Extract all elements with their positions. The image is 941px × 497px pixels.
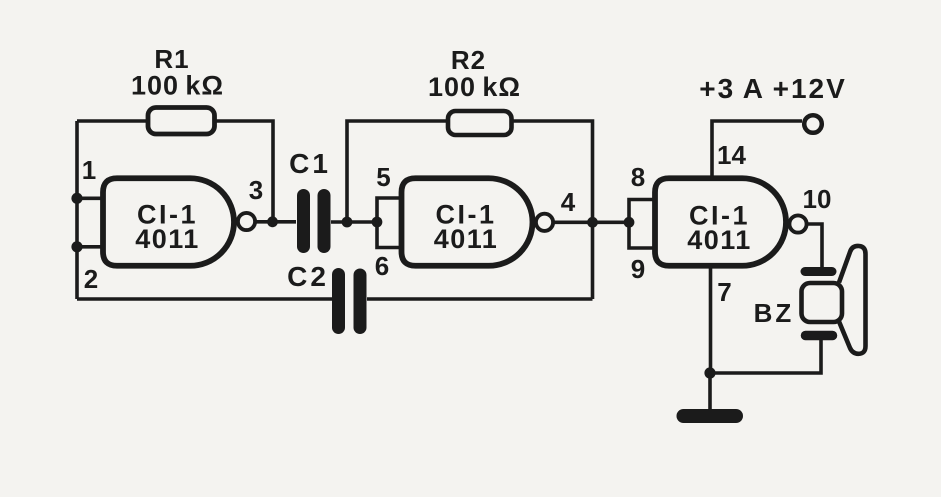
- capacitor C2 right plate: [354, 275, 367, 328]
- svg-text:1: 1: [82, 155, 96, 185]
- svg-text:4011: 4011: [135, 224, 200, 254]
- nand gate U1a output bubble: [238, 213, 255, 230]
- svg-text:8: 8: [631, 162, 645, 192]
- wire gate1 input stub pin2: [77, 245, 104, 249]
- svg-text:BZ: BZ: [754, 298, 795, 328]
- wire bottom feedback through C2 left part: [77, 297, 332, 301]
- buzzer BZ body: [802, 283, 843, 322]
- node gate2 input junction: [372, 217, 383, 228]
- capacitor C1 left plate: [297, 196, 310, 247]
- wire pin14 supply vertical: [712, 121, 802, 178]
- svg-text:4: 4: [561, 187, 576, 217]
- nand gate U1c CI-1 4011 body: [655, 178, 786, 266]
- resistor R2: [448, 111, 512, 135]
- wire top-left to R1: [77, 119, 150, 123]
- svg-text:14: 14: [717, 140, 746, 170]
- wire buzzer return: [710, 340, 821, 373]
- wire C1 to gate2 input: [331, 220, 377, 224]
- svg-text:4011: 4011: [687, 225, 752, 255]
- svg-text:R2: R2: [451, 45, 486, 75]
- buzzer BZ bottom terminal bar: [806, 331, 833, 341]
- svg-text:C2: C2: [287, 261, 329, 292]
- nand gate U1c output bubble: [789, 215, 806, 232]
- buzzer BZ cone: [839, 246, 866, 354]
- svg-text:7: 7: [717, 277, 731, 307]
- wire gate1 input stub pin1: [77, 197, 104, 201]
- node gate1 input pin1 junction: [71, 193, 82, 204]
- svg-text:100 kΩ: 100 kΩ: [131, 71, 224, 101]
- svg-text:10: 10: [803, 184, 832, 214]
- node ground junction: [704, 367, 715, 378]
- wire R2 right to output vertical: [512, 121, 593, 299]
- resistor R1: [148, 108, 215, 135]
- ground symbol bar: [684, 409, 737, 423]
- wire bottom feedback C2 to pin4: [367, 297, 593, 301]
- wire left vertical feedback bus: [75, 121, 79, 299]
- node gate1 output junction pin3: [267, 216, 278, 227]
- node gate1 input pin2 junction: [71, 241, 82, 252]
- capacitor C1 right plate: [318, 196, 331, 247]
- nand gate U1b output bubble: [536, 214, 553, 231]
- terminal +12V open circle: [804, 115, 822, 133]
- svg-text:+3 A +12V: +3 A +12V: [699, 73, 847, 104]
- svg-text:4011: 4011: [434, 224, 499, 254]
- wire gate2 output to gate3: [555, 221, 630, 225]
- capacitor C2 left plate: [332, 275, 345, 328]
- svg-text:C1: C1: [289, 148, 331, 179]
- svg-text:9: 9: [631, 254, 645, 284]
- wire R1 to output vertical: [214, 121, 274, 222]
- svg-text:100 kΩ: 100 kΩ: [428, 72, 521, 102]
- node R2 left junction: [342, 217, 353, 228]
- svg-text:3: 3: [249, 175, 263, 205]
- buzzer BZ top terminal bar: [805, 267, 832, 276]
- wire gate2 input bracket: [377, 198, 402, 248]
- svg-text:R1: R1: [154, 44, 189, 74]
- nand gate U1a CI-1 4011 body: [103, 178, 234, 266]
- wire R2 left vertical: [347, 121, 448, 222]
- wire gate3 output pin10 to buzzer: [808, 224, 822, 267]
- svg-text:5: 5: [376, 162, 390, 192]
- node gate3 input junction: [624, 217, 635, 228]
- svg-text:2: 2: [84, 264, 98, 294]
- wire gate1 output to C1: [256, 220, 296, 224]
- nand gate U1b CI-1 4011 body: [402, 178, 533, 266]
- node gate2 output pin4 junction: [587, 217, 598, 228]
- wire ground stem: [708, 373, 712, 409]
- svg-text:6: 6: [375, 251, 389, 281]
- wire gate3 input bracket: [629, 200, 655, 249]
- wire pin7 ground vertical: [709, 266, 713, 373]
